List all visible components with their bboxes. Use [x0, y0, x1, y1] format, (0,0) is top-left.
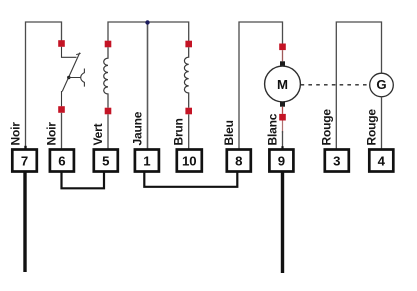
svg-text:Noir: Noir — [9, 122, 23, 146]
node red terminal on Brun bottom — [185, 108, 192, 115]
motor U1 M circle — [265, 66, 301, 102]
motor terminal square top — [280, 61, 285, 66]
motor terminal square bottom — [280, 102, 285, 107]
wire jumper 6-5 — [62, 172, 105, 189]
terminal box 6 — [50, 150, 74, 172]
wire Blanc lower lead — [282, 107, 284, 114]
wire switch lower lead — [61, 91, 63, 106]
terminal box 7 — [12, 150, 37, 172]
svg-text:Blanc: Blanc — [266, 113, 280, 145]
svg-text:8: 8 — [235, 153, 242, 168]
wire stub above box 9 — [281, 146, 283, 149]
inductor L2 Brun winding — [184, 47, 188, 107]
node switch blade dot — [67, 76, 70, 79]
wire switch actuator link — [69, 77, 81, 79]
svg-text:10: 10 — [182, 153, 197, 168]
wire Brun to box — [188, 114, 190, 149]
wire top bridge 5-10 — [108, 22, 189, 42]
svg-text:1: 1 — [143, 153, 150, 168]
svg-text:Noir: Noir — [45, 122, 59, 146]
node red terminal on Vert bottom — [105, 108, 112, 115]
node red terminal on Noir 6 top — [58, 40, 65, 47]
svg-text:Jaune: Jaune — [131, 111, 145, 145]
wire Noir 6 to box — [61, 113, 63, 150]
wire switch upper lead — [62, 47, 77, 58]
wire top bridge 8-9 — [239, 22, 283, 150]
inductor L1 Vert winding — [104, 47, 108, 107]
svg-text:9: 9 — [278, 153, 285, 168]
svg-text:3: 3 — [333, 153, 340, 168]
svg-text:5: 5 — [102, 153, 109, 168]
switch S blade — [62, 53, 80, 92]
node red terminal on Blanc top — [279, 44, 286, 51]
wire Vert to box — [107, 114, 109, 149]
node red terminal on Noir 6 bottom — [58, 106, 65, 113]
wire Rouge 4 to box — [381, 97, 383, 150]
svg-text:6: 6 — [58, 153, 65, 168]
svg-text:4: 4 — [378, 153, 386, 168]
terminal box 9 — [269, 150, 293, 172]
svg-text:Rouge: Rouge — [319, 109, 333, 146]
node red terminal on Vert top — [105, 41, 112, 48]
svg-text:7: 7 — [21, 153, 28, 168]
wire Jaune vertical — [147, 22, 149, 150]
svg-text:G: G — [376, 77, 386, 92]
node red terminal on Blanc bottom — [279, 114, 286, 121]
terminal box 4 — [369, 150, 393, 172]
svg-text:M: M — [277, 77, 288, 92]
terminal box 10 — [177, 150, 202, 172]
svg-text:Brun: Brun — [172, 118, 186, 145]
wire top bridge 7-6 — [26, 22, 62, 150]
wire jumper 1-8 — [144, 172, 237, 187]
node red terminal on Brun top — [185, 41, 192, 48]
wire dashed link M to G — [301, 84, 370, 86]
wire top bridge 3-4 — [336, 22, 381, 150]
terminal box 3 — [325, 150, 349, 172]
wire Blanc to box — [282, 121, 284, 134]
wire thick lead below 9 — [281, 172, 284, 274]
svg-text:Vert: Vert — [91, 123, 105, 145]
generator G circle — [370, 73, 394, 97]
svg-text:Rouge: Rouge — [365, 109, 379, 146]
switch S blade tip tick — [76, 53, 80, 54]
switch actuator symbol — [81, 69, 85, 87]
node junction Jaune — [145, 20, 149, 24]
terminal box 1 — [135, 150, 159, 172]
terminal box 5 — [94, 150, 118, 172]
wire thick lead below 7 — [23, 172, 26, 273]
wire stub above box 7 — [24, 146, 26, 150]
wire Blanc upper lead — [282, 50, 284, 61]
svg-text:Bleu: Bleu — [222, 120, 236, 145]
terminal box 8 — [227, 150, 251, 172]
